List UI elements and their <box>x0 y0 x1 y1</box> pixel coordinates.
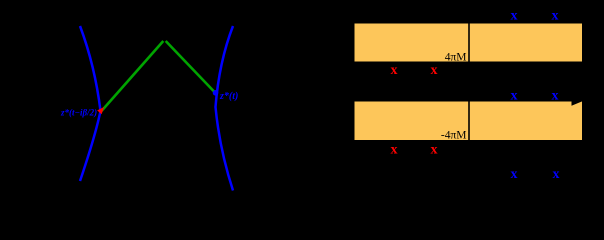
red arrowhead on green path <box>97 107 104 114</box>
svg-text:4πM: 4πM <box>445 52 467 64</box>
vertical axis line through bands <box>468 21 470 142</box>
green saddle path left leg <box>102 41 164 111</box>
svg-text:x: x <box>431 63 438 78</box>
svg-text:x: x <box>511 9 518 24</box>
svg-text:x: x <box>391 143 398 158</box>
svg-text:x: x <box>511 89 518 104</box>
svg-text:z*(t−iβ/2): z*(t−iβ/2) <box>60 108 97 118</box>
blue node dot at right junction <box>213 90 219 96</box>
svg-text:x: x <box>552 9 559 24</box>
left blue curve (branch z*(t-ib/2)) <box>80 26 101 181</box>
svg-text:x: x <box>431 143 438 158</box>
svg-text:z*(t): z*(t) <box>219 91 238 102</box>
svg-text:-4πM: -4πM <box>441 130 467 142</box>
svg-text:x: x <box>553 167 560 182</box>
top yellow band <box>354 23 584 63</box>
svg-text:x: x <box>552 89 559 104</box>
right blue curve (branch z*(t)) <box>216 26 234 191</box>
svg-text:x: x <box>511 167 518 182</box>
bottom yellow band <box>354 101 584 142</box>
svg-text:x: x <box>391 63 398 78</box>
green saddle path right leg <box>166 41 215 93</box>
black arrowhead on bottom band top edge <box>572 96 584 106</box>
